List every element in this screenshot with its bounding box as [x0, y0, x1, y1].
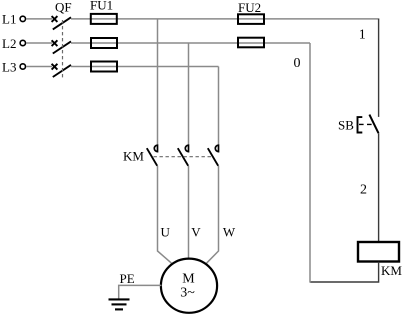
wire PE	[119, 285, 162, 298]
wire control phase (node 1 vertical, upper)	[378, 19, 380, 117]
contactor KM main contact 1	[147, 145, 158, 166]
svg-text:V: V	[191, 225, 201, 240]
svg-text:3~: 3~	[180, 286, 195, 301]
wire L2 row	[71, 42, 310, 44]
contactor KM main contact 2	[178, 145, 189, 166]
pushbutton SB	[358, 115, 379, 134]
wire coil to node 0 bottom	[310, 262, 379, 282]
svg-text:M: M	[182, 272, 195, 287]
contactor KM contacts dashed link	[154, 156, 214, 158]
ground (earth) symbol	[109, 299, 130, 309]
svg-text:L1: L1	[2, 12, 16, 27]
motor M 3~	[161, 259, 217, 313]
breaker QF pole 1 contact X	[52, 16, 58, 22]
svg-text:U: U	[161, 225, 171, 240]
wire L1 terminal to QF	[26, 18, 52, 20]
svg-text:1: 1	[359, 28, 366, 43]
svg-text:FU1: FU1	[90, 0, 113, 13]
wire phase U drop	[157, 19, 159, 145]
wire L3 terminal to QF	[26, 66, 52, 68]
svg-text:FU2: FU2	[238, 0, 261, 15]
wire node 2 (SB to coil)	[378, 133, 380, 242]
wire phase W drop	[218, 67, 220, 145]
breaker QF pole 3 blade	[53, 65, 71, 77]
svg-text:L2: L2	[2, 36, 16, 51]
breaker QF pole 3 contact X	[52, 64, 58, 70]
svg-text:KM: KM	[381, 263, 402, 278]
breaker QF pole 2 contact X	[52, 40, 58, 46]
svg-text:PE: PE	[120, 271, 135, 286]
breaker QF pole 1 blade	[53, 17, 71, 29]
wire L1 row	[71, 18, 379, 20]
wire node 0 vertical	[309, 43, 311, 283]
svg-text:L3: L3	[2, 59, 16, 74]
svg-text:0: 0	[294, 56, 301, 71]
fuse FU1 pole 3	[91, 62, 117, 72]
wire L3 row	[71, 66, 219, 68]
wire phase V drop	[188, 43, 190, 145]
fuse FU1 pole 1	[91, 14, 117, 24]
svg-text:QF: QF	[55, 0, 72, 15]
svg-text:SB: SB	[338, 118, 354, 133]
breaker QF pole 2 blade	[53, 41, 71, 53]
fuse FU2 pole 1	[238, 14, 264, 24]
wire V to motor	[188, 166, 190, 259]
terminal L2	[20, 40, 25, 45]
fuse FU1 pole 2	[91, 38, 117, 48]
breaker QF interlock dashed link	[62, 20, 64, 78]
wire L2 terminal to QF	[26, 42, 52, 44]
terminal L3	[20, 64, 25, 69]
svg-text:KM: KM	[123, 148, 144, 163]
wire U to motor	[158, 166, 172, 263]
contactor coil KM	[358, 242, 399, 262]
svg-text:2: 2	[360, 182, 367, 197]
svg-text:W: W	[223, 225, 236, 240]
terminal L1	[20, 16, 25, 21]
fuse FU2 pole 2	[238, 38, 264, 48]
contactor KM main contact 3	[208, 145, 219, 166]
wire W to motor	[207, 166, 219, 263]
